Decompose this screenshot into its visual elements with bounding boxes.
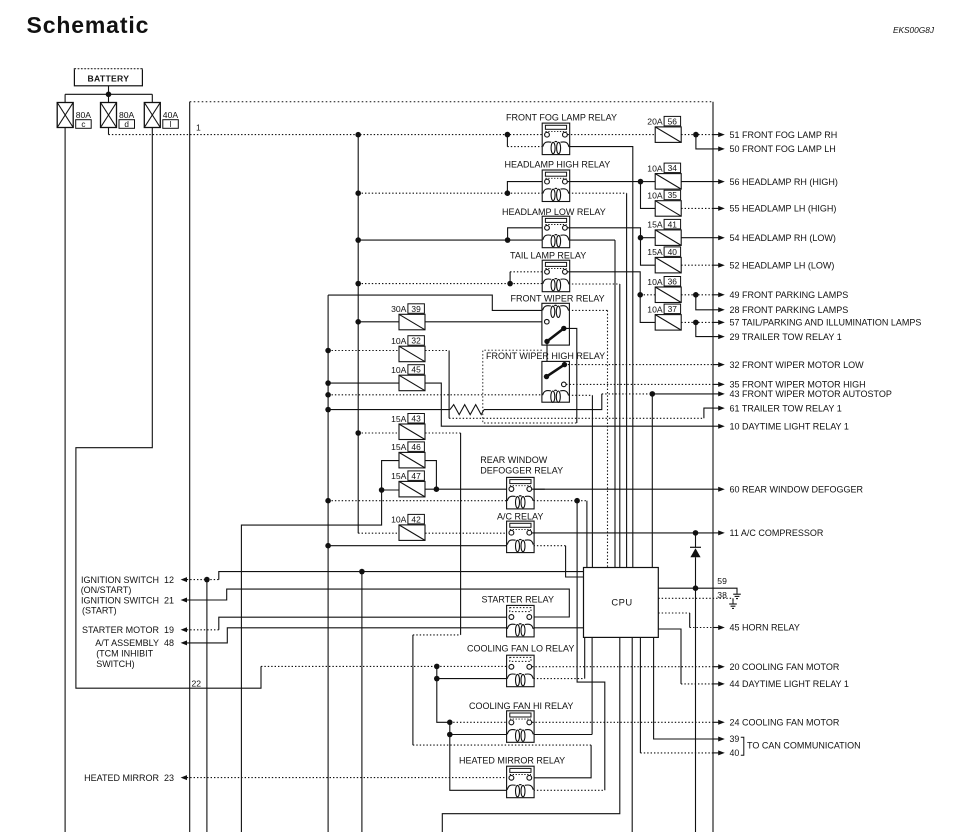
svg-text:42: 42 (411, 514, 421, 524)
wire 38 to ground dotted (658, 597, 733, 599)
wire ignition 21 to starter relay (187, 589, 570, 617)
svg-text:HEADLAMP HIGH RELAY: HEADLAMP HIGH RELAY (505, 160, 611, 170)
svg-text:56: 56 (668, 116, 678, 126)
wire hl high contact branch (507, 182, 544, 194)
wire hl low coil to cpu (614, 240, 616, 567)
relay a/c relay (507, 521, 534, 553)
fuse label 15A 40 (647, 247, 680, 257)
svg-text:80A: 80A (76, 110, 92, 120)
svg-text:57 TAIL/PARKING AND ILLUMINATI: 57 TAIL/PARKING AND ILLUMINATION LAMPS (730, 318, 922, 328)
junction bus A fuse39 (355, 319, 361, 325)
wire lo contact out 20 dotted (532, 666, 713, 668)
wire fuse 41 out (681, 237, 713, 239)
fuse 45 10A (399, 375, 425, 391)
wire starter motor 19 dotted (187, 629, 219, 631)
wire wiper high coil feed dotted (328, 394, 542, 396)
wire a/t 48 to starter coil (187, 628, 507, 643)
arrow 20 cooling fan motor (713, 666, 719, 668)
wire fuse 42 in dotted (358, 532, 399, 534)
svg-text:10A: 10A (647, 304, 663, 314)
fuse 37 10A (655, 315, 681, 331)
svg-text:32 FRONT WIPER MOTOR LOW: 32 FRONT WIPER MOTOR LOW (730, 360, 865, 370)
wire ac contact out 11 (532, 532, 713, 534)
wire lo coil feed (437, 678, 507, 680)
fusible link c 80A (57, 103, 91, 129)
arrow 55 headlamp lh high (713, 207, 719, 209)
svg-text:28 FRONT PARKING LAMPS: 28 FRONT PARKING LAMPS (730, 305, 849, 315)
svg-text:15A: 15A (647, 220, 663, 230)
svg-text:l: l (170, 120, 172, 129)
svg-text:STARTER MOTOR 19: STARTER MOTOR 19 (82, 625, 174, 635)
wire 45 horn relay dotted (658, 612, 689, 614)
svg-text:40: 40 (730, 748, 740, 758)
svg-text:45: 45 (411, 365, 421, 375)
wire defogger contact out 60 (532, 488, 713, 490)
wire cpu pin down (631, 637, 633, 832)
wire hl high coil feed dotted (507, 192, 542, 194)
wire 22 line dotted (261, 665, 437, 667)
svg-text:COOLING FAN HI RELAY: COOLING FAN HI RELAY (469, 701, 573, 711)
wire fuse 34 out (681, 181, 713, 183)
fuse 36 10A (655, 287, 681, 303)
wire fuse35 branch (641, 182, 656, 209)
wire cpu pin 40 (639, 637, 641, 753)
wiper high enclosure dashed (483, 350, 577, 423)
wire resistor feed (328, 409, 450, 411)
fuse label 10A 36 (647, 277, 680, 287)
svg-text:59: 59 (717, 576, 727, 586)
svg-text:15A: 15A (391, 442, 407, 452)
junction 59 diode (693, 585, 699, 591)
junction under battery (106, 92, 112, 98)
wire fuse 32 in dotted (328, 350, 399, 352)
junction fuse 36/37 feed (637, 292, 643, 298)
wire fuse 37 out (681, 321, 713, 323)
junction bus B fuse32 (325, 348, 331, 354)
svg-text:FRONT WIPER HIGH RELAY: FRONT WIPER HIGH RELAY (486, 351, 605, 361)
CPU (584, 568, 659, 638)
svg-text:38: 38 (717, 590, 727, 600)
wire fuse 41 in (641, 237, 656, 239)
relay cooling fan hi relay (507, 711, 534, 743)
junction hi contact (447, 720, 453, 726)
wire fuse 47 out to defogger (425, 488, 545, 490)
wire 22 down to heated mirror coil (450, 735, 507, 791)
svg-text:43 FRONT WIPER MOTOR AUTOSTOP: 43 FRONT WIPER MOTOR AUTOSTOP (730, 389, 892, 399)
svg-text:24 COOLING FAN MOTOR: 24 COOLING FAN MOTOR (730, 718, 840, 728)
wire fuse37 branch (640, 295, 655, 323)
IPDM E/R box (190, 102, 713, 832)
junction lo coil (434, 676, 440, 682)
wire branch 28 (696, 295, 713, 310)
svg-text:FRONT WIPER RELAY: FRONT WIPER RELAY (511, 294, 605, 304)
svg-text:STARTER RELAY: STARTER RELAY (482, 594, 555, 604)
junction hi coil (447, 732, 453, 738)
junction 22 contact (434, 664, 440, 670)
svg-text:30A: 30A (391, 304, 407, 314)
wire wiper high coil out (569, 394, 593, 396)
junction 51/50 (693, 132, 699, 138)
wire wiper lo coil out dotted (569, 309, 608, 311)
wire lo coil to cpu (584, 637, 586, 678)
wire ac coil feed (328, 545, 507, 547)
svg-text:10A: 10A (391, 515, 407, 525)
fuse 39 30A (399, 314, 425, 330)
wire branch 50 (696, 135, 713, 149)
wire branch 29 (696, 322, 713, 336)
arrow ignition 21 (181, 598, 187, 603)
svg-text:EKS00G8J: EKS00G8J (893, 25, 935, 35)
wire fuse 39 out (425, 321, 545, 323)
wire 22 down to hi relay (437, 679, 450, 723)
junction 57/29 (693, 320, 699, 326)
svg-text:11 A/C COMPRESSOR: 11 A/C COMPRESSOR (730, 528, 824, 538)
svg-text:d: d (124, 120, 129, 129)
wire ign12 drop down (361, 572, 363, 832)
wire heated mirror 23 dotted (187, 777, 510, 779)
bus B vertical (327, 295, 329, 832)
wire fuse 39 in (358, 321, 399, 323)
fuse 47 15A (399, 481, 425, 497)
svg-text:15A: 15A (647, 247, 663, 257)
relay headlamp high relay (542, 170, 570, 202)
fuse 42 10A (399, 525, 425, 541)
svg-text:29 TRAILER TOW RELAY 1: 29 TRAILER TOW RELAY 1 (730, 332, 842, 342)
arrow 28 front parking lamps (713, 309, 719, 311)
svg-text:(START): (START) (82, 606, 117, 616)
relay starter relay (507, 605, 534, 637)
wire fuse 40 out (681, 264, 713, 266)
junction tail branch (507, 281, 513, 287)
svg-text:61 TRAILER TOW RELAY 1: 61 TRAILER TOW RELAY 1 (730, 403, 842, 413)
junction diode tap (693, 530, 699, 536)
relay tail lamp relay (542, 260, 570, 292)
arrow 45 horn relay (713, 627, 719, 629)
svg-text:Schematic: Schematic (27, 12, 150, 38)
fuse label 10A 34 (647, 163, 680, 173)
wire wiper lo coil to cpu dotted (607, 310, 609, 567)
junction autostop (650, 391, 656, 397)
wire hi coil branch (449, 722, 451, 734)
svg-text:52 HEADLAMP LH (LOW): 52 HEADLAMP LH (LOW) (730, 260, 835, 270)
wire hl low coil feed (508, 239, 543, 241)
wire fuse 43 out (425, 432, 460, 434)
svg-text:CPU: CPU (611, 596, 632, 607)
svg-text:32: 32 (411, 336, 421, 346)
wire hl high feed dotted (358, 192, 507, 194)
arrow 52 headlamp lh low (713, 264, 719, 266)
relay rear window defogger relay (507, 477, 534, 509)
wire 19 step to relay (219, 617, 510, 630)
wire lo coil out dotted (534, 678, 585, 680)
arrow heated mirror 23 (181, 775, 187, 780)
svg-text:45 HORN RELAY: 45 HORN RELAY (730, 623, 800, 633)
junction hl high branch (505, 190, 511, 196)
svg-text:55 HEADLAMP LH (HIGH): 55 HEADLAMP LH (HIGH) (730, 204, 837, 214)
wire wiper coil feed (328, 295, 542, 310)
svg-text:HEATED MIRROR RELAY: HEATED MIRROR RELAY (459, 755, 565, 765)
svg-text:22: 22 (192, 679, 202, 689)
wire fuse34 in (641, 181, 656, 183)
junction bus B wiper high coil (325, 392, 331, 398)
fuse 46 15A (399, 452, 425, 468)
wire battery to junction (108, 86, 110, 95)
wire tail coil out dotted (569, 283, 620, 285)
arrow 39 (713, 738, 719, 740)
wire fuse 46/47 in (241, 461, 399, 832)
wire fuse 45 out to 10 (425, 383, 713, 426)
battery box (74, 69, 142, 86)
fuse label 10A 42 (391, 514, 424, 524)
junction bus A hl high (355, 190, 361, 196)
arrow 60 rear window defogger (713, 488, 719, 490)
svg-text:BATTERY: BATTERY (88, 74, 130, 84)
wire ign12 step to cpu (207, 579, 219, 581)
wire ign12 down (206, 580, 208, 832)
wire wiper no hook (564, 328, 577, 423)
svg-text:51 FRONT FOG LAMP RH: 51 FRONT FOG LAMP RH (730, 130, 838, 140)
svg-text:10 DAYTIME LIGHT RELAY 1: 10 DAYTIME LIGHT RELAY 1 (730, 421, 849, 431)
wire tail contact out (568, 272, 641, 295)
junction fuse 46/47 in (379, 487, 385, 493)
fuse 40 15A (655, 257, 681, 273)
relay heated mirror relay (507, 766, 534, 798)
svg-text:REAR WINDOW: REAR WINDOW (480, 455, 548, 465)
relay front fog lamp relay (542, 123, 570, 155)
svg-text:c: c (81, 120, 85, 129)
wire ac coil to cpu (566, 546, 584, 577)
fusible link d 80A (101, 103, 135, 129)
wire fuse 36 out (681, 294, 713, 296)
svg-text:15A: 15A (391, 471, 407, 481)
svg-text:40: 40 (668, 247, 678, 257)
arrow 54 headlamp rh low (713, 237, 719, 239)
svg-text:40A: 40A (163, 110, 179, 120)
wire ac coil out dotted (534, 545, 566, 547)
wire ignition 12 dotted (187, 579, 207, 581)
fuse label 10A 35 (647, 190, 680, 200)
arrow 56 headlamp rh high (713, 181, 719, 183)
fuse label 15A 47 (391, 471, 424, 481)
wire hi coil to cpu (591, 637, 593, 734)
svg-text:20A: 20A (647, 117, 663, 127)
junction fuse 41/40 feed (638, 235, 644, 241)
junction fuse 46/47 out (434, 486, 440, 492)
wire battery bus (65, 93, 152, 95)
fuse label 15A 41 (647, 219, 680, 229)
arrow 43 front wiper motor autostop (713, 393, 719, 395)
junction ignition 12 (204, 577, 210, 583)
svg-text:80A: 80A (119, 110, 135, 120)
arrow 40 (713, 752, 719, 754)
fuse label 10A 37 (647, 304, 680, 314)
wire hi contact out 24 dotted (532, 721, 713, 723)
ground 38 (729, 602, 737, 609)
wire fog coil branch (506, 135, 508, 147)
front wiper relay (542, 303, 570, 345)
ground 59 (733, 592, 741, 599)
arrow 44 daytime light relay 1 (713, 683, 719, 685)
wire defogger coil to cpu (586, 501, 588, 568)
svg-text:IGNITION SWITCH 21: IGNITION SWITCH 21 (81, 596, 174, 606)
arrow 11 a/c compressor (713, 532, 719, 534)
wire fuse 35 out (681, 207, 713, 209)
wire 43 to border (652, 393, 713, 395)
wire 35 front wiper motor high (566, 383, 713, 385)
fuse 34 10A (655, 174, 681, 190)
wire heated mirror coil out dotted (534, 789, 605, 791)
wire cpu pin 39 (654, 637, 713, 739)
wire defogger coil out dotted (534, 500, 587, 502)
resistor (450, 405, 484, 415)
arrow 32 front wiper motor low (713, 364, 719, 366)
svg-text:10A: 10A (391, 365, 407, 375)
wire fuse 56 out (681, 134, 713, 136)
svg-text:37: 37 (668, 304, 678, 314)
svg-text:20 COOLING FAN MOTOR: 20 COOLING FAN MOTOR (730, 662, 840, 672)
svg-text:54 HEADLAMP RH (LOW): 54 HEADLAMP RH (LOW) (730, 233, 836, 243)
wire line 1 dotted (109, 134, 545, 136)
wire fuse 43 in dotted (358, 432, 399, 434)
wire defogger node down (577, 501, 605, 791)
wire link l down (76, 128, 261, 689)
arrow 29 trailer tow relay 1 (713, 336, 719, 338)
fuse label 15A 46 (391, 442, 424, 452)
junction defogger coil node (574, 498, 580, 504)
wire tail feed dotted (358, 283, 510, 285)
svg-text:36: 36 (668, 277, 678, 287)
wire 43 autostop dotted (602, 393, 653, 395)
svg-text:43: 43 (411, 414, 421, 424)
arrow 50 front fog lamp lh (713, 148, 719, 150)
svg-text:56 HEADLAMP RH (HIGH): 56 HEADLAMP RH (HIGH) (730, 177, 838, 187)
fuse label 10A 32 (391, 336, 424, 346)
svg-text:46: 46 (411, 442, 421, 452)
wire to link d (108, 94, 110, 102)
bus A vertical (357, 135, 359, 534)
fuse 43 15A (399, 424, 425, 440)
wire resistor to step (484, 394, 602, 410)
arrow 57 tail parking illumination (713, 321, 719, 323)
svg-text:49 FRONT PARKING LAMPS: 49 FRONT PARKING LAMPS (730, 290, 849, 300)
arrow 51 front fog lamp rh (713, 134, 719, 136)
svg-text:TO CAN COMMUNICATION: TO CAN COMMUNICATION (747, 741, 861, 751)
svg-text:FRONT FOG LAMP RELAY: FRONT FOG LAMP RELAY (506, 113, 617, 123)
svg-text:47: 47 (411, 471, 421, 481)
junction bus B resistor (325, 407, 331, 413)
fuse 35 10A (655, 201, 681, 217)
svg-text:A/C RELAY: A/C RELAY (497, 511, 543, 521)
diode (690, 533, 701, 832)
wire hl high coil to cpu (626, 193, 628, 567)
wire hl high contact out (568, 181, 641, 183)
svg-text:10A: 10A (391, 336, 407, 346)
svg-text:SWITCH): SWITCH) (96, 659, 135, 669)
wire defogger coil feed dotted (328, 500, 507, 502)
junction bus A fuse43 (355, 430, 361, 436)
arrow 61 trailer tow relay 1 (713, 407, 719, 409)
wire fuse 46 out (425, 461, 436, 490)
svg-text:HEATED MIRROR 23: HEATED MIRROR 23 (84, 773, 174, 783)
fusible link l 40A (144, 103, 178, 129)
wire fuse 45 in (328, 382, 399, 384)
wire to link c (64, 94, 66, 102)
svg-text:34: 34 (668, 163, 678, 173)
wire 59 to ground (658, 588, 737, 592)
wire to link l (151, 94, 153, 102)
svg-text:44 DAYTIME LIGHT RELAY 1: 44 DAYTIME LIGHT RELAY 1 (730, 679, 849, 689)
arrow ignition 12 (181, 577, 187, 582)
wire hl high coil out dotted (569, 192, 627, 194)
wire fog contact out dotted (568, 134, 656, 136)
arrow 35 front wiper motor high (713, 383, 719, 385)
wire hl low feed (358, 239, 507, 241)
junction 49/28 (693, 292, 699, 298)
junction ign12 drop (359, 569, 365, 575)
svg-text:41: 41 (668, 219, 678, 229)
front wiper high relay (542, 361, 570, 402)
junction fuse 34/35 feed (638, 179, 644, 185)
svg-text:(ON/START): (ON/START) (81, 585, 132, 595)
wire lo coil branch (436, 666, 438, 678)
junction bus A tail (355, 281, 361, 287)
relay headlamp low relay (542, 216, 570, 248)
wire 32 front wiper motor low (565, 364, 714, 366)
wire tail coil to cpu (619, 284, 621, 568)
arrow 10 daytime light relay 1 (713, 425, 719, 427)
junction bus A line1 (355, 132, 361, 138)
wire wiper com link (546, 344, 548, 376)
wire cpu pin 619 path (442, 637, 620, 832)
wire hl low contact branch (508, 228, 545, 240)
arrow 49 front parking lamps (713, 294, 719, 296)
wire hl low coil out (569, 239, 616, 241)
svg-text:15A: 15A (391, 414, 407, 424)
arrow a/t 48 (181, 640, 187, 645)
wire link c down (64, 128, 66, 832)
svg-text:DEFOGGER RELAY: DEFOGGER RELAY (480, 466, 563, 476)
svg-text:10A: 10A (647, 277, 663, 287)
wire fuse36 in dotted (640, 294, 655, 296)
wire fuse 32 out to 61 (425, 350, 449, 352)
fuse 32 10A (399, 346, 425, 362)
wire lo contact feed dotted (437, 665, 510, 667)
fuse label 20A 56 (647, 116, 680, 126)
arrow starter motor 19 (181, 627, 187, 632)
fuse 41 15A (655, 230, 681, 246)
svg-text:39: 39 (411, 304, 421, 314)
fuse label 30A 39 (391, 304, 424, 314)
svg-text:1: 1 (196, 123, 201, 133)
fuse label 10A 45 (391, 365, 424, 375)
junction fog feed (505, 132, 511, 138)
bracket to can (741, 737, 744, 755)
svg-text:COOLING FAN LO RELAY: COOLING FAN LO RELAY (467, 644, 574, 654)
wire tail contact branch (509, 272, 511, 284)
wire starter coil to cpu (534, 627, 584, 629)
relay cooling fan lo relay (507, 655, 534, 687)
wire fuse 42 out dotted (425, 532, 512, 534)
fuse label 15A 43 (391, 414, 424, 424)
junction hl low branch (505, 237, 511, 243)
wire fog coil out (569, 147, 633, 568)
svg-text:10A: 10A (647, 191, 663, 201)
arrow 24 cooling fan motor (713, 721, 719, 723)
svg-text:(TCM INHIBIT: (TCM INHIBIT (96, 649, 153, 659)
wire fuse 40 branch (641, 238, 656, 266)
wire 44 daytime light relay (658, 629, 681, 684)
wire hl low contact out (568, 228, 641, 238)
